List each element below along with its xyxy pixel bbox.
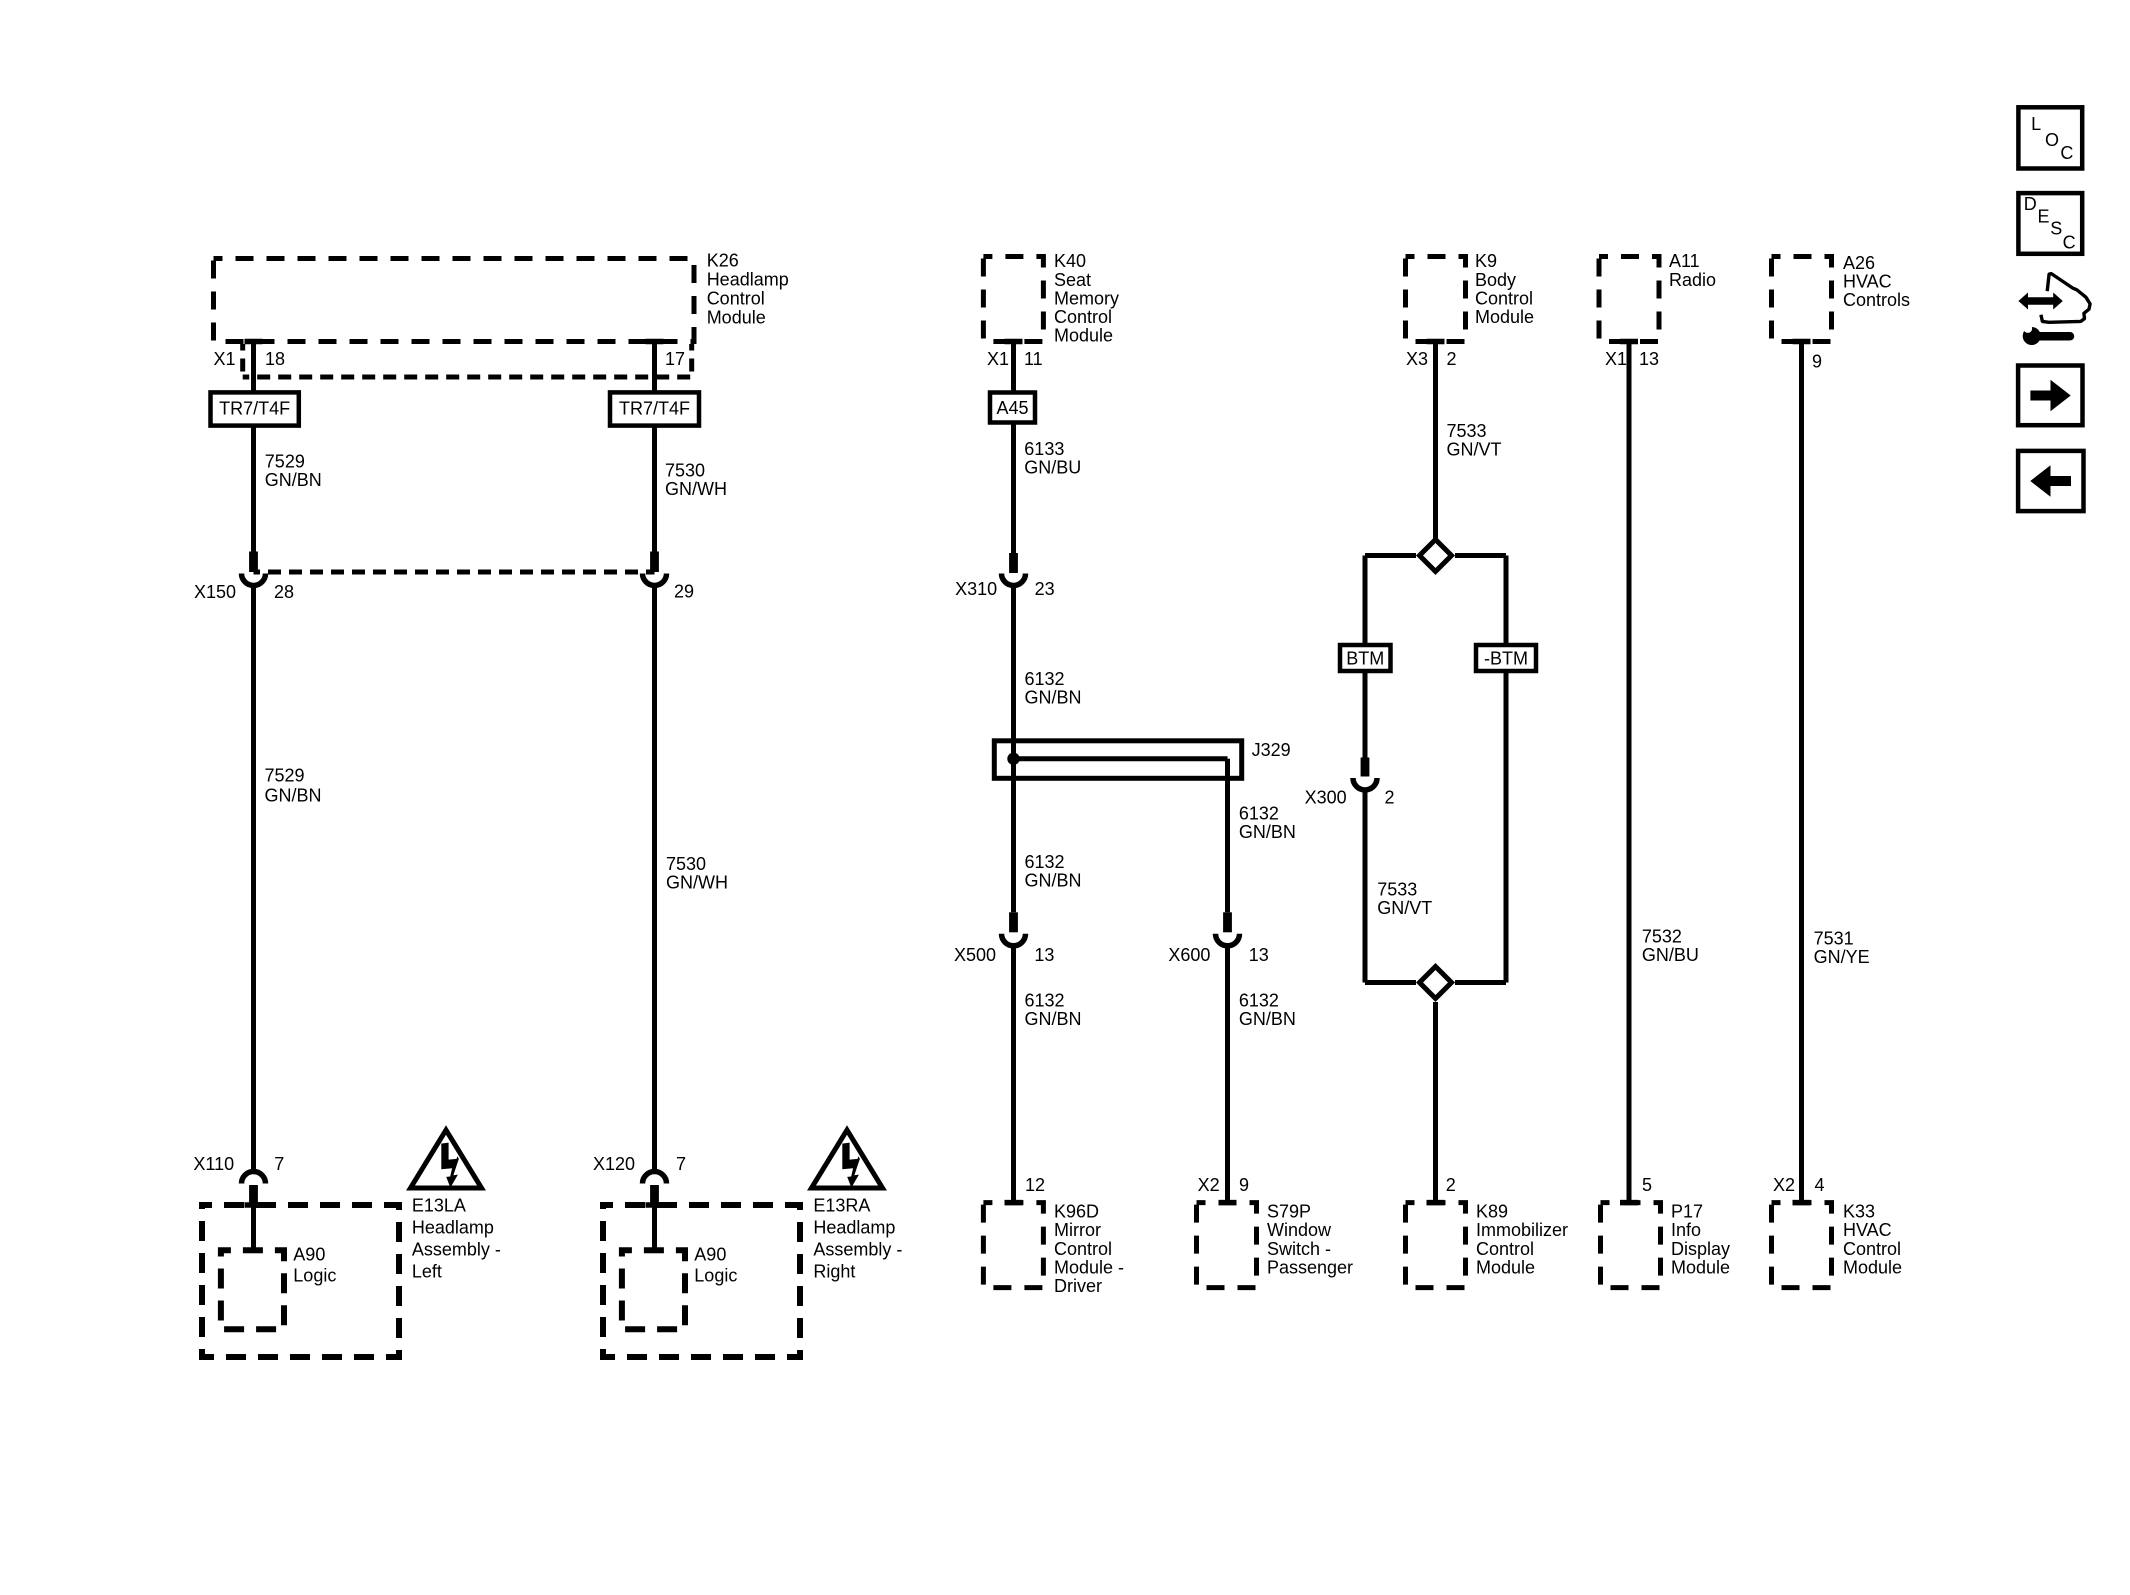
- svg-text:6132: 6132: [1239, 804, 1279, 824]
- svg-text:GN/VT: GN/VT: [1377, 898, 1432, 918]
- svg-text:K40: K40: [1054, 251, 1086, 271]
- svg-text:23: 23: [1035, 579, 1055, 599]
- svg-text:Module: Module: [1476, 1257, 1535, 1277]
- svg-text:Passenger: Passenger: [1267, 1257, 1353, 1277]
- wire 7533 GN/VT lower left branch: [1363, 789, 1368, 983]
- connector X300 male pin: [1361, 758, 1370, 777]
- svg-text:Logic: Logic: [293, 1266, 336, 1286]
- A90 right top edge dash at pin: [646, 1248, 664, 1254]
- wire 7533 GN/VT from K9: [1433, 342, 1438, 540]
- svg-text:-BTM: -BTM: [1484, 649, 1528, 669]
- svg-text:J329: J329: [1252, 740, 1291, 760]
- svg-text:Radio: Radio: [1669, 270, 1716, 290]
- svg-text:L: L: [2031, 114, 2041, 134]
- K40 bottom edge dash at pin: [1005, 339, 1023, 345]
- svg-text:18: 18: [265, 349, 285, 369]
- svg-text:2: 2: [1385, 788, 1395, 808]
- svg-text:5: 5: [1642, 1175, 1652, 1195]
- connector X600 male pin: [1223, 912, 1232, 932]
- sidebar wrench handle: [2036, 332, 2070, 341]
- svg-text:Control: Control: [1475, 288, 1533, 308]
- svg-text:X300: X300: [1305, 788, 1347, 808]
- svg-text:X3: X3: [1406, 349, 1428, 369]
- wire 7530 GN/WH long segment: [652, 585, 657, 1169]
- svg-text:7532: 7532: [1642, 927, 1682, 947]
- svg-text:TR7/T4F: TR7/T4F: [219, 399, 290, 419]
- lightning bolt left: [441, 1143, 459, 1188]
- svg-text:7529: 7529: [265, 452, 305, 472]
- wire branch top right: [1455, 553, 1506, 558]
- module A11 Radio dashed box: [1599, 257, 1659, 342]
- module K26 Headlamp Control Module dashed box: [214, 259, 695, 342]
- svg-text:A26: A26: [1843, 253, 1875, 273]
- wire 6133 GN/BU: [1011, 423, 1016, 554]
- E13LA top edge dash at pin: [245, 1202, 263, 1208]
- svg-text:E13RA: E13RA: [813, 1196, 870, 1216]
- svg-text:GN/BN: GN/BN: [265, 786, 322, 806]
- connector X300 female cup: [1353, 778, 1377, 790]
- svg-text:Controls: Controls: [1843, 290, 1910, 310]
- svg-text:X500: X500: [954, 945, 996, 965]
- module S79P Window Switch - Passenger dashed box: [1197, 1203, 1257, 1288]
- svg-text:S79P: S79P: [1267, 1202, 1311, 1222]
- svg-text:E: E: [2038, 206, 2050, 226]
- svg-text:29: 29: [674, 582, 694, 602]
- svg-text:Control: Control: [1054, 307, 1112, 327]
- sidebar DESC box: [2018, 193, 2082, 254]
- svg-text:Control: Control: [707, 289, 765, 309]
- K89 top edge dash at pin: [1427, 1200, 1445, 1206]
- svg-text:O: O: [2045, 130, 2059, 150]
- svg-text:GN/BU: GN/BU: [1642, 945, 1699, 965]
- A11 bottom edge dash at pin: [1620, 339, 1638, 345]
- svg-text:BTM: BTM: [1346, 649, 1384, 669]
- wire K40 X1-11 to A45: [1011, 342, 1016, 393]
- svg-text:A45: A45: [996, 398, 1028, 418]
- svg-text:GN/BU: GN/BU: [1024, 458, 1081, 478]
- svg-text:GN/BN: GN/BN: [1025, 1009, 1082, 1029]
- svg-text:Assembly -: Assembly -: [412, 1240, 501, 1260]
- wire 7530 GN/WH upper segment: [652, 426, 657, 572]
- svg-text:K89: K89: [1476, 1202, 1508, 1222]
- svg-text:Info: Info: [1671, 1220, 1701, 1240]
- svg-text:GN/BN: GN/BN: [1239, 1009, 1296, 1029]
- connector X500 female cup: [1002, 934, 1026, 946]
- svg-text:Module: Module: [1843, 1257, 1902, 1277]
- svg-text:7530: 7530: [666, 854, 706, 874]
- connector X1 (K26) dotted outline left: [240, 344, 245, 377]
- svg-text:GN/VT: GN/VT: [1447, 440, 1502, 460]
- wire X600 to S79P: [1225, 945, 1230, 1203]
- svg-text:Module -: Module -: [1054, 1257, 1124, 1277]
- inline device BTM box: [1340, 645, 1391, 671]
- svg-text:13: 13: [1034, 945, 1054, 965]
- svg-text:X2: X2: [1198, 1175, 1220, 1195]
- A26 bottom edge dash at pin: [1793, 339, 1811, 345]
- svg-text:P17: P17: [1671, 1202, 1703, 1222]
- svg-text:17: 17: [665, 349, 685, 369]
- connector X150 pin 29 male pin: [650, 552, 659, 573]
- svg-text:GN/WH: GN/WH: [665, 479, 727, 499]
- svg-text:7531: 7531: [1814, 929, 1854, 949]
- svg-text:Module: Module: [1671, 1257, 1730, 1277]
- svg-text:GN/YE: GN/YE: [1814, 947, 1870, 967]
- inline device A45 box: [990, 393, 1035, 423]
- connector X310 male pin: [1009, 553, 1018, 573]
- svg-text:GN/BN: GN/BN: [265, 470, 322, 490]
- svg-text:C: C: [2060, 143, 2073, 163]
- wire branch top left: [1365, 553, 1416, 558]
- svg-text:GN/BN: GN/BN: [1025, 871, 1082, 891]
- svg-text:HVAC: HVAC: [1843, 1220, 1892, 1240]
- svg-text:Seat: Seat: [1054, 270, 1091, 290]
- component A90 Logic (right) dashed box: [622, 1250, 685, 1329]
- sidebar next-page arrow: [2030, 391, 2052, 401]
- svg-text:D: D: [2024, 194, 2037, 214]
- svg-text:TR7/T4F: TR7/T4F: [619, 399, 690, 419]
- connector X110 female cup: [242, 1172, 266, 1184]
- junction diamond bottom: [1420, 967, 1452, 999]
- svg-text:Driver: Driver: [1054, 1276, 1102, 1296]
- svg-text:Body: Body: [1475, 270, 1516, 290]
- connector X150 pin 29 female cup: [643, 574, 667, 586]
- svg-text:X1: X1: [1605, 349, 1627, 369]
- connector X120 male pin: [650, 1185, 659, 1205]
- component A90 Logic (left) dashed box: [221, 1250, 284, 1329]
- svg-text:K33: K33: [1843, 1202, 1875, 1222]
- module K26 bottom edge dash under pin 18: [245, 339, 263, 345]
- connector X1 (K26) dotted outline right: [689, 344, 694, 377]
- module A26 HVAC Controls dashed box: [1772, 257, 1832, 342]
- svg-text:7: 7: [676, 1154, 686, 1174]
- svg-text:7: 7: [274, 1154, 284, 1174]
- P17 top edge dash at pin: [1620, 1200, 1638, 1206]
- svg-text:Module: Module: [707, 308, 766, 328]
- svg-text:Left: Left: [412, 1262, 442, 1282]
- svg-text:X110: X110: [193, 1154, 234, 1174]
- wire 7532 GN/BU: [1627, 342, 1632, 1203]
- svg-text:11: 11: [1024, 349, 1043, 369]
- svg-text:Immobilizer: Immobilizer: [1476, 1220, 1568, 1240]
- svg-text:4: 4: [1815, 1175, 1825, 1195]
- svg-text:2: 2: [1446, 1175, 1456, 1195]
- svg-text:X2: X2: [1773, 1175, 1795, 1195]
- svg-text:Switch -: Switch -: [1267, 1239, 1331, 1259]
- component E13LA Headlamp Assembly - Left dashed box: [202, 1205, 399, 1357]
- A90 top edge dash at pin: [245, 1248, 263, 1254]
- sidebar vehicle icon double arrow shaft: [2024, 297, 2056, 305]
- svg-text:28: 28: [274, 582, 294, 602]
- connector X150 pin 28 male pin: [249, 552, 258, 573]
- svg-text:C: C: [2063, 233, 2076, 253]
- sidebar vehicle icon arrowhead left: [2018, 293, 2028, 310]
- wire 6132 GN/BN tap down to X600: [1225, 759, 1230, 913]
- svg-text:GN/BN: GN/BN: [1239, 822, 1296, 842]
- svg-text:GN/BN: GN/BN: [1025, 688, 1082, 708]
- sidebar vehicle icon arrowhead right: [2053, 293, 2063, 310]
- svg-text:S: S: [2050, 219, 2062, 239]
- connector X110 male pin: [249, 1185, 258, 1205]
- lightning bolt right: [842, 1143, 860, 1188]
- wire into A90 right: [652, 1205, 657, 1250]
- svg-text:Module: Module: [1054, 326, 1113, 346]
- wire 7529 GN/BN upper segment: [251, 426, 256, 572]
- wire 7531 GN/YE: [1799, 342, 1804, 1203]
- svg-text:GN/WH: GN/WH: [666, 873, 728, 893]
- wire right branch to -BTM: [1504, 556, 1509, 646]
- svg-text:K96D: K96D: [1054, 1202, 1099, 1222]
- J329 internal bus line: [1014, 756, 1228, 761]
- sidebar wrench notch wedge: [2024, 323, 2033, 329]
- svg-text:E13LA: E13LA: [412, 1196, 466, 1216]
- module K96D Mirror Control Module - Driver dashed box: [983, 1203, 1043, 1288]
- sidebar wrench head: [2023, 327, 2041, 345]
- junction diamond top: [1420, 540, 1452, 572]
- wire to K89: [1433, 1002, 1438, 1203]
- module K26 bottom edge dash under pin 17: [646, 339, 664, 345]
- connector X150 pin 28 female cup: [242, 574, 266, 586]
- module K40 Seat Memory Control Module dashed box: [983, 257, 1043, 342]
- warning triangle left: [411, 1130, 482, 1188]
- wire 6132 GN/BN through J329 down to X500: [1011, 585, 1016, 912]
- svg-text:X150: X150: [194, 582, 236, 602]
- svg-text:7533: 7533: [1447, 421, 1487, 441]
- wire K26 X1-18 to TR7/T4F: [251, 342, 256, 393]
- module K9 Body Control Module dashed box: [1406, 257, 1466, 342]
- svg-text:Display: Display: [1671, 1239, 1730, 1259]
- module K33 HVAC Control Module dashed box: [1772, 1203, 1832, 1288]
- warning triangle right: [812, 1130, 883, 1188]
- splice pack J329 box: [994, 741, 1241, 779]
- svg-text:X120: X120: [593, 1154, 635, 1174]
- fuse TR7/T4F right box: [610, 392, 699, 425]
- fuse TR7/T4F left box: [211, 392, 299, 425]
- svg-text:Headlamp: Headlamp: [707, 270, 789, 290]
- svg-text:K26: K26: [707, 251, 739, 271]
- wire into A90 left: [251, 1205, 256, 1250]
- svg-text:13: 13: [1249, 945, 1269, 965]
- svg-text:A90: A90: [694, 1245, 726, 1265]
- svg-text:7533: 7533: [1377, 880, 1417, 900]
- svg-text:Mirror: Mirror: [1054, 1220, 1101, 1240]
- connector X120 female cup: [643, 1172, 667, 1184]
- svg-text:9: 9: [1812, 352, 1822, 372]
- svg-text:Module: Module: [1475, 307, 1534, 327]
- svg-text:A11: A11: [1669, 251, 1700, 271]
- svg-text:Headlamp: Headlamp: [412, 1218, 494, 1238]
- wire left branch to BTM: [1363, 556, 1368, 646]
- svg-text:6132: 6132: [1025, 852, 1065, 872]
- connector X310 female cup: [1002, 574, 1026, 586]
- wire X500 to K96D: [1011, 945, 1016, 1203]
- wire BTM to X300: [1363, 671, 1368, 758]
- svg-text:Right: Right: [813, 1262, 855, 1282]
- svg-text:12: 12: [1025, 1175, 1045, 1195]
- svg-text:Assembly -: Assembly -: [813, 1240, 902, 1260]
- svg-text:Headlamp: Headlamp: [813, 1218, 895, 1238]
- svg-text:2: 2: [1447, 349, 1457, 369]
- svg-text:X310: X310: [955, 579, 997, 599]
- K96D top edge dash at pin: [1005, 1200, 1023, 1206]
- svg-text:7530: 7530: [665, 461, 705, 481]
- S79P top edge dash at pin: [1219, 1200, 1237, 1206]
- connector X150 dotted joint line: [254, 570, 655, 575]
- module K89 Immobilizer Control Module dashed box: [1406, 1203, 1466, 1288]
- sidebar prev-page arrow: [2049, 476, 2071, 486]
- svg-text:6132: 6132: [1025, 991, 1065, 1011]
- wire -BTM down right branch: [1504, 671, 1509, 983]
- svg-text:X1: X1: [214, 349, 236, 369]
- wire branch bottom right: [1455, 980, 1506, 985]
- svg-text:A90: A90: [293, 1245, 325, 1265]
- svg-text:Memory: Memory: [1054, 288, 1119, 308]
- sidebar next-page arrow box: [2018, 366, 2082, 426]
- svg-text:Window: Window: [1267, 1220, 1332, 1240]
- connector X500 male pin: [1009, 912, 1018, 932]
- svg-text:Logic: Logic: [694, 1266, 737, 1286]
- svg-text:6133: 6133: [1024, 439, 1064, 459]
- component E13RA Headlamp Assembly - Right dashed box: [603, 1205, 800, 1357]
- connector X600 female cup: [1216, 934, 1240, 946]
- svg-text:K9: K9: [1475, 251, 1497, 271]
- svg-text:6132: 6132: [1025, 669, 1065, 689]
- svg-text:9: 9: [1239, 1175, 1249, 1195]
- sidebar wrench jaw notch: [2024, 324, 2033, 333]
- wire K26 X1-17 to TR7/T4F: [652, 342, 657, 393]
- svg-text:X1: X1: [987, 349, 1009, 369]
- sidebar prev-page arrow box: [2018, 451, 2083, 511]
- K33 top edge dash at pin: [1793, 1200, 1811, 1206]
- connector X1 (K26) dotted outline bottom: [243, 375, 692, 380]
- J329 junction dot: [1007, 753, 1019, 765]
- module P17 Info Display Module dashed box: [1601, 1203, 1661, 1288]
- K9 bottom edge dash at pin: [1427, 339, 1445, 345]
- svg-text:Control: Control: [1476, 1239, 1534, 1259]
- wire 7529 GN/BN long segment: [251, 585, 256, 1169]
- svg-text:6132: 6132: [1239, 991, 1279, 1011]
- inline device -BTM box: [1476, 645, 1536, 671]
- wire branch bottom left: [1365, 980, 1416, 985]
- svg-text:7529: 7529: [265, 766, 305, 786]
- svg-text:13: 13: [1639, 349, 1659, 369]
- E13RA top edge dash at pin: [646, 1202, 664, 1208]
- svg-text:X600: X600: [1168, 945, 1210, 965]
- svg-text:HVAC: HVAC: [1843, 272, 1892, 292]
- sidebar LOC box: [2018, 107, 2082, 168]
- svg-text:Control: Control: [1843, 1239, 1901, 1259]
- svg-text:Control: Control: [1054, 1239, 1112, 1259]
- sidebar vehicle outline: [2041, 274, 2090, 323]
